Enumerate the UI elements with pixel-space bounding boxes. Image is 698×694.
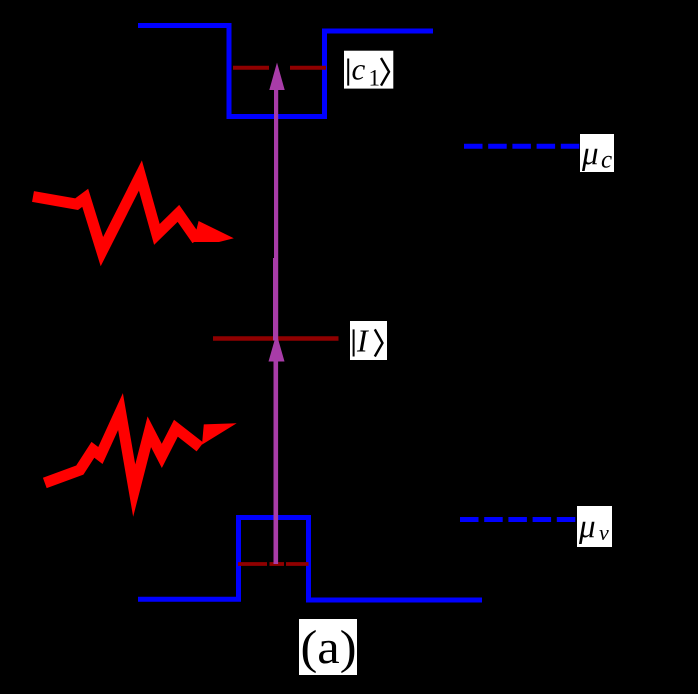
svg-text:c: c <box>601 147 612 174</box>
lower purple transition arrow (valence level to |I>) <box>269 334 285 565</box>
label mu_v <box>577 506 612 547</box>
chemical potential mu_c dashed line (blue) <box>464 144 582 149</box>
svg-text:1: 1 <box>369 66 381 91</box>
svg-text:μ: μ <box>578 509 596 545</box>
svg-text:c: c <box>352 52 366 87</box>
upper purple transition arrow (|I> to |c1>) <box>269 63 284 341</box>
label mu_c <box>580 134 614 174</box>
upper red photon squiggle arrow <box>33 176 234 252</box>
conduction band well (blue) <box>138 26 433 117</box>
label |c1> <box>344 51 393 91</box>
label (a) <box>299 619 357 675</box>
svg-text:μ: μ <box>581 136 599 172</box>
level |c1> dashed dark red line in conduction well <box>233 66 326 70</box>
valence level dashed dark red line in valence well <box>238 562 309 566</box>
lower red photon squiggle arrow <box>45 412 237 491</box>
svg-text:v: v <box>599 520 609 545</box>
valence band well (blue) <box>138 518 482 601</box>
svg-text:I: I <box>356 322 369 358</box>
svg-text:(a): (a) <box>301 621 357 674</box>
intermediate level |I> solid dark red line <box>213 336 339 340</box>
label |I> <box>350 321 387 360</box>
chemical potential mu_v dashed line (blue) <box>460 517 578 522</box>
